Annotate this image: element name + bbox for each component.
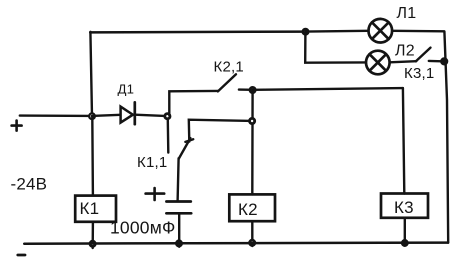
node: К3 / bottom rail junction: [402, 240, 408, 246]
node: lamp branch junction on top rail: [303, 29, 308, 34]
contact К2,1 blade (normally open): [218, 74, 236, 91]
svg-text:К1: К1: [80, 199, 100, 218]
relay coil К2: [229, 194, 275, 221]
node: К3,1 / right rail junction: [441, 59, 447, 65]
contact К1,1 blade and tick: [179, 138, 193, 159]
node A: diode output / К2,1 / К1,1 junction: [165, 114, 170, 119]
svg-text:К1,1: К1,1: [137, 154, 167, 171]
wire: К1 coil to bottom rail: [91, 222, 94, 248]
wire: diode cathode to node A: [135, 115, 167, 116]
wire: К1,1 fixed lead corner across to node B: [189, 120, 252, 142]
switch К3,1 blade: [416, 48, 431, 62]
wire: К1 coil branch from + node down: [91, 116, 94, 195]
svg-text:К3,1: К3,1: [404, 65, 434, 82]
diode Д1: [121, 102, 135, 124]
wire: vertical from К2,1 node down to relay coil К2: [251, 90, 254, 194]
wire: К2 coil to bottom rail: [251, 221, 253, 246]
svg-text:К2,1: К2,1: [214, 58, 244, 75]
relay coil К3: [381, 194, 428, 218]
wire: + rail from node to diode anode: [92, 115, 120, 116]
wire: left vertical riser (top rail down to + rail): [90, 32, 92, 116]
node: junction of + rail, riser and К1 coil branch: [89, 113, 95, 119]
wire: node A down (К1,1 left throw lead): [167, 120, 170, 153]
lamp Л1: [369, 19, 393, 43]
node: К2,1 output / К3 coil branch: [250, 87, 255, 92]
label: - terminal polarity: [18, 254, 25, 257]
wire: К1,1 common down to capacitor top plate: [178, 158, 179, 201]
node: capacitor / bottom rail junction: [176, 241, 181, 246]
node: К1 / bottom rail junction: [90, 241, 95, 246]
svg-text:Л1: Л1: [397, 5, 417, 22]
wire: top rail from junction to lamp Л1: [306, 30, 368, 33]
wire: across the top to К3 coil drop: [253, 88, 403, 90]
wire: vertical drop to relay coil К3: [403, 88, 404, 194]
wire: node A up and across to К2,1 moving contact: [169, 91, 218, 115]
wire: lamp Л2 to switch К3,1: [390, 61, 416, 62]
wire: К3 coil to bottom rail: [404, 218, 406, 246]
wire: К3,1 fixed stub to right rail: [429, 60, 442, 63]
svg-text:К2: К2: [238, 200, 258, 219]
wire: right rail down to bottom rail: [444, 31, 448, 242]
svg-text:-24В: -24В: [11, 175, 48, 194]
label: + terminal polarity: [12, 121, 22, 131]
capacitor C1 plates: [166, 202, 191, 214]
svg-text:К3: К3: [394, 198, 414, 217]
wire: drop from junction to lamp Л2: [305, 32, 365, 63]
relay coil К1: [75, 196, 116, 222]
node B: junction on К2 coil feed: [250, 118, 255, 123]
wire: top rail from left corner to lamp junction: [90, 30, 305, 33]
node: К2 / bottom rail junction: [250, 240, 255, 245]
svg-text:Д1: Д1: [118, 82, 135, 97]
label: capacitor polarity +: [146, 188, 165, 200]
svg-text:Л2: Л2: [395, 43, 415, 60]
wire: К2,1 fixed contact stub to node: [239, 88, 253, 91]
wire: bottom rail: [24, 243, 448, 244]
svg-text:1000мФ: 1000мФ: [110, 218, 175, 238]
wire: capacitor bottom plate to bottom rail: [178, 214, 180, 247]
wire: + supply rail from left terminal to node: [20, 114, 92, 117]
lamp Л2: [366, 51, 390, 75]
wire: lamp Л1 to right rail corner: [393, 30, 444, 33]
